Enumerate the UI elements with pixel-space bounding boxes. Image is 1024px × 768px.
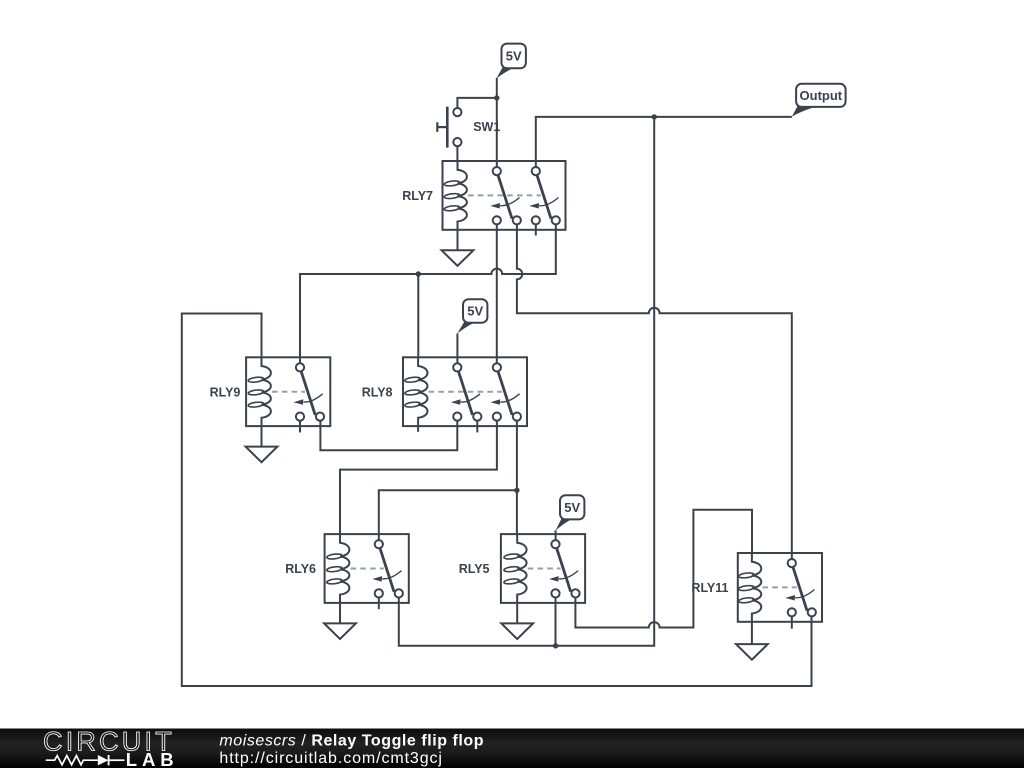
- wire RLY7 pole2 NO to RLY9 common: [300, 224, 556, 363]
- wire RLY7 pole1 NC to RLY8 pole2 common: [496, 224, 498, 363]
- svg-text:Output: Output: [800, 88, 843, 103]
- svg-text:5V: 5V: [564, 500, 580, 515]
- wire RLY5 NC to bottom run junction: [555, 598, 557, 646]
- node label Output: [792, 84, 846, 117]
- wire RLY8 pole2 NC to RLY6 coil: [340, 421, 497, 535]
- ground at RLY5 coil: [501, 603, 533, 639]
- ground at RLY6 coil: [324, 603, 356, 639]
- wire RLY9 NO to RLY8 pole1 NC: [320, 421, 457, 450]
- node RLY8 coil junction: [416, 271, 421, 276]
- ground at RLY9 coil: [246, 426, 278, 462]
- wire RLY6 NC stub: [378, 598, 380, 610]
- wire 5V to RLY8 pole1 common: [456, 334, 458, 364]
- svg-text:RLY5: RLY5: [459, 562, 490, 576]
- svg-text:http://circuitlab.com/cmt3gcj: http://circuitlab.com/cmt3gcj: [219, 750, 443, 767]
- wire Output net vertical to bottom run and RLY6 NO: [399, 117, 654, 646]
- node 5V-SW1-RLY7 junction: [494, 95, 499, 100]
- svg-text:moisescrs / Relay Toggle flip: moisescrs / Relay Toggle flip flop: [219, 733, 484, 750]
- svg-text:RLY11: RLY11: [691, 581, 728, 595]
- svg-text:5V: 5V: [506, 49, 522, 64]
- wire node to SW1 top: [457, 98, 496, 108]
- wire SW1 bottom to RLY7 coil: [456, 146, 458, 162]
- svg-text:5V: 5V: [467, 304, 483, 319]
- wire junction to RLY8 coil: [417, 274, 419, 358]
- svg-text:SW1: SW1: [473, 120, 500, 134]
- node bottom run junction: [553, 643, 558, 648]
- wire RLY8 pole2 NO to RLY5 coil: [516, 421, 518, 535]
- wire junction to RLY6 common: [379, 490, 517, 540]
- ground at RLY11 coil: [736, 622, 768, 660]
- svg-text:LAB: LAB: [126, 749, 179, 768]
- svg-text:RLY8: RLY8: [362, 385, 393, 399]
- wire RLY7 pole2 NC stub: [535, 224, 537, 235]
- relay RLY8: [362, 357, 527, 426]
- power label 5V (top): [496, 44, 526, 79]
- switch SW1: [437, 107, 500, 148]
- bottom banner bar: [0, 729, 1024, 768]
- node RLY6 common junction: [514, 488, 519, 493]
- svg-text:RLY7: RLY7: [402, 189, 433, 203]
- wire RLY8 pole1 NO stub: [476, 421, 478, 433]
- wire RLY7 pole1 NO to RLY11 common: [517, 224, 792, 559]
- svg-text:RLY9: RLY9: [210, 385, 241, 399]
- relay RLY7: [402, 161, 565, 230]
- node Output junction: [652, 114, 657, 119]
- relay RLY5: [459, 534, 585, 603]
- ground at RLY7 coil: [442, 230, 474, 266]
- power label 5V (RLY5): [555, 495, 584, 531]
- wire RLY8 coil stub: [417, 426, 419, 432]
- relay RLY9: [210, 357, 331, 426]
- power label 5V (RLY8): [457, 299, 487, 334]
- relay RLY6: [285, 534, 409, 603]
- CircuitLab logo: [43, 727, 179, 768]
- wire RLY5 NO to RLY11 coil: [575, 510, 752, 628]
- wire 5V to RLY5 common: [555, 530, 557, 540]
- wire RLY9 NC stub: [299, 421, 301, 433]
- svg-text:RLY6: RLY6: [285, 562, 316, 576]
- relay RLY11: [691, 553, 822, 622]
- wire RLY11 NC stub: [791, 616, 793, 628]
- wire RLY9 coil feedback loop to RLY11 NO: [182, 314, 812, 687]
- wire node to RLY7 pole1 common: [496, 98, 498, 167]
- wire 5V supply stem to node: [496, 78, 498, 98]
- wire RLY7 pole2 common to Output: [536, 117, 792, 167]
